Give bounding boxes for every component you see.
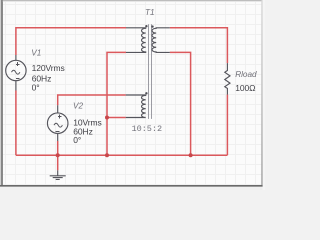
svg-text:V2: V2 — [73, 102, 83, 111]
svg-text:0°: 0° — [32, 83, 40, 93]
svg-text:V1: V1 — [31, 49, 41, 58]
svg-text:0°: 0° — [73, 135, 81, 145]
svg-text:120Vrms: 120Vrms — [32, 63, 65, 73]
svg-text:T1: T1 — [145, 8, 155, 17]
svg-text:Rload: Rload — [235, 70, 257, 79]
svg-text:10:5:2: 10:5:2 — [132, 124, 163, 134]
svg-text:100Ω: 100Ω — [235, 83, 255, 93]
